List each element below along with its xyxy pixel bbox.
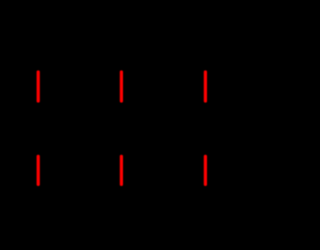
red bar top-right [204,70,207,102]
red bar bottom-left [37,155,40,186]
red bar bottom-middle [120,155,123,186]
red bar bottom-right [204,155,207,186]
red bar top-left [37,70,40,102]
red bar top-middle [120,70,123,102]
